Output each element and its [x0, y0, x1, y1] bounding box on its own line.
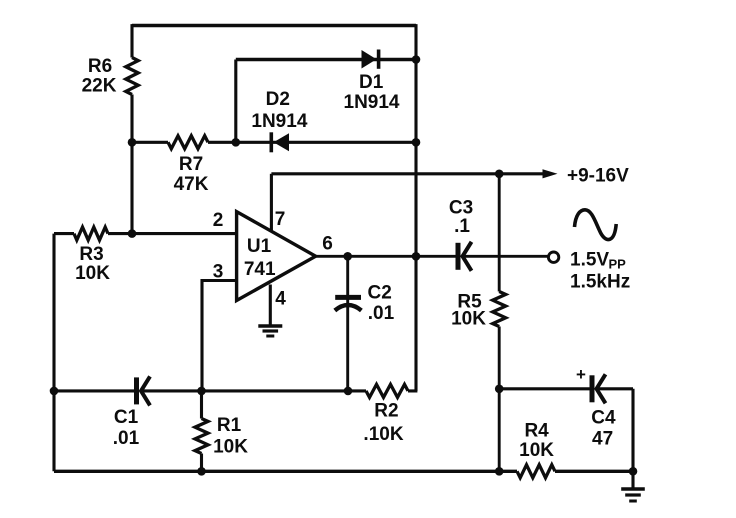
wire pin 3 line: [202, 281, 237, 391]
sine wave symbol: [575, 210, 617, 240]
resistor R4: [517, 421, 555, 478]
svg-text:10K: 10K: [519, 440, 554, 461]
node R5 bottom / C4: [495, 385, 504, 394]
node D2 line / right rail: [412, 138, 421, 147]
svg-text:C1: C1: [114, 407, 139, 428]
svg-text:PP: PP: [609, 257, 627, 272]
wire pin 4: [269, 285, 272, 326]
svg-text:1.5kHz: 1.5kHz: [570, 272, 630, 293]
svg-text:10K: 10K: [451, 309, 486, 330]
wire output line (pin 6): [316, 255, 549, 258]
wire R5 branch: [498, 174, 501, 472]
svg-text:47K: 47K: [174, 174, 209, 195]
node C1 right / R1 top: [197, 387, 206, 396]
resistor R1: [195, 391, 248, 471]
node bottom rail / R5 branch: [495, 467, 504, 476]
node output / right rail: [412, 252, 421, 261]
svg-text:2: 2: [213, 210, 224, 231]
wire pin 2 line: [54, 232, 237, 235]
svg-text:U1: U1: [247, 236, 272, 257]
wire top rail: [132, 24, 416, 27]
wire C4 line: [499, 387, 633, 390]
wire R6 bottom to R3 line: [130, 95, 133, 234]
node R6/R7 junction: [128, 138, 137, 147]
svg-text:22K: 22K: [82, 76, 117, 97]
svg-text:1N914: 1N914: [251, 111, 307, 132]
resistor R6: [82, 56, 139, 97]
wire D1 branch vertical: [234, 60, 237, 143]
diode D1 1N914: [344, 50, 400, 114]
svg-text:R2: R2: [374, 401, 398, 422]
svg-text:10K: 10K: [75, 263, 110, 284]
svg-text:1.5V: 1.5V: [570, 250, 609, 271]
wire R6 branch top: [130, 24, 133, 57]
wire bottom rail: [54, 470, 633, 473]
svg-text:+9-16V: +9-16V: [567, 165, 629, 186]
wire +V supply line: [271, 172, 544, 175]
svg-text:47: 47: [592, 429, 613, 450]
ground (main): [621, 471, 645, 501]
svg-text:7: 7: [275, 209, 286, 230]
svg-text:D1: D1: [359, 72, 384, 93]
wire pin 7: [270, 174, 273, 232]
svg-text:D2: D2: [266, 89, 290, 110]
wire R7/D2 line: [132, 141, 416, 144]
node D1 cathode / right rail: [412, 55, 421, 64]
diode D2 1N914: [251, 89, 307, 152]
svg-text:.10K: .10K: [363, 424, 403, 445]
svg-text:C2: C2: [368, 283, 392, 304]
output label 1.5Vpp: [570, 250, 626, 272]
wire right vertical rail: [414, 24, 417, 391]
resistor R2: [363, 384, 408, 445]
node supply / R5 branch: [495, 170, 504, 179]
svg-text:R3: R3: [79, 244, 103, 265]
node C1 left / left rail: [50, 387, 59, 396]
node R3 line / R6 branch: [128, 229, 137, 238]
node C2 bottom: [344, 387, 353, 396]
capacitor C4: [591, 374, 616, 449]
wire C1 line: [54, 389, 417, 392]
resistor R5: [451, 292, 506, 330]
resistor R7: [168, 136, 209, 195]
svg-text:R4: R4: [524, 421, 549, 442]
wire left vertical: [52, 234, 55, 472]
svg-text:3: 3: [213, 262, 224, 283]
op-amp U1 741: [237, 212, 316, 301]
svg-text:1N914: 1N914: [344, 92, 400, 113]
svg-text:.01: .01: [368, 303, 395, 324]
capacitor C2: [335, 256, 395, 391]
node ground / C4 right: [629, 467, 638, 476]
svg-text:R6: R6: [88, 56, 112, 77]
svg-text:6: 6: [322, 234, 333, 255]
svg-text:+: +: [576, 365, 586, 384]
svg-text:.01: .01: [113, 428, 140, 449]
node R7/D2/D1 junction: [232, 138, 241, 147]
svg-text:C4: C4: [591, 408, 616, 429]
svg-text:10K: 10K: [213, 437, 248, 458]
output terminal: [548, 252, 558, 262]
svg-text:R1: R1: [217, 415, 242, 436]
wire C4 right vertical: [631, 389, 634, 472]
resistor R3: [74, 227, 110, 284]
svg-text:4: 4: [275, 289, 286, 310]
node output / C2: [343, 252, 352, 261]
capacitor C3: [449, 198, 473, 271]
svg-text:741: 741: [244, 259, 276, 280]
wire D1 line: [236, 58, 416, 61]
supply arrowhead: [543, 169, 558, 178]
capacitor C1: [113, 376, 150, 449]
node R1 bottom: [197, 467, 206, 476]
ground (op-amp pin 4): [258, 326, 282, 336]
svg-text:.1: .1: [454, 216, 470, 237]
svg-text:R7: R7: [179, 154, 203, 175]
